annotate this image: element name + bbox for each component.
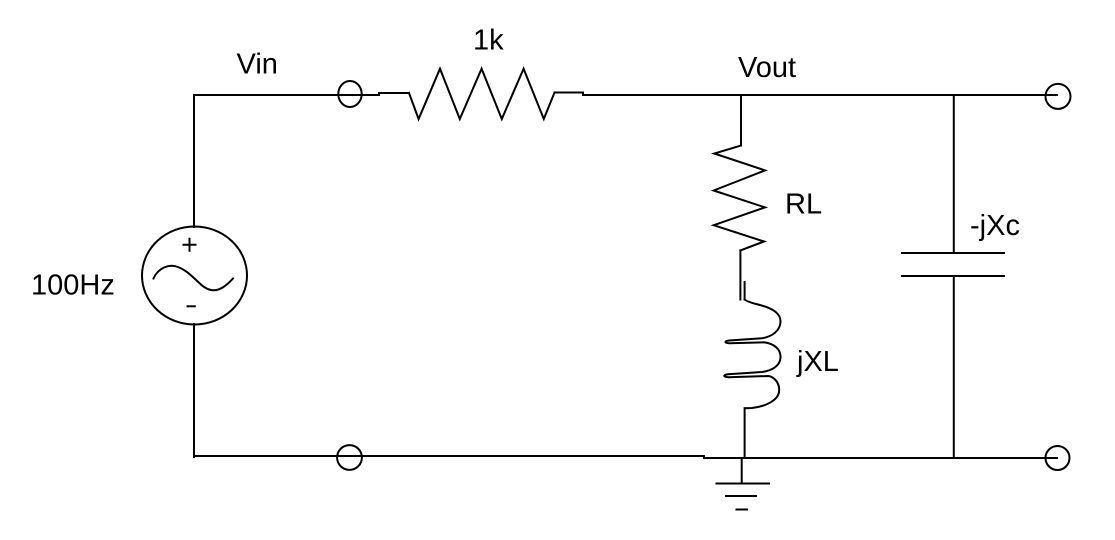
terminal bottom-left xyxy=(337,445,362,470)
svg-text:Vout: Vout xyxy=(738,52,796,84)
AC source minus sign xyxy=(188,305,195,307)
terminal top-left xyxy=(338,81,361,107)
terminal top-right xyxy=(1046,84,1071,109)
wire inductor top lead overlap xyxy=(744,282,746,300)
resistor R1 1k zigzag xyxy=(409,69,555,119)
svg-text:RL: RL xyxy=(785,188,822,220)
AC source sine wave xyxy=(154,266,234,290)
wire capacitor bottom lead xyxy=(953,276,955,458)
ground bar 3 xyxy=(737,509,748,511)
wire source bottom lead xyxy=(193,324,195,457)
ground stub xyxy=(741,458,743,484)
wire top-left from source to resistor xyxy=(194,93,409,95)
capacitor C1 top plate xyxy=(902,252,1004,254)
wire Vout node down lead xyxy=(740,95,742,146)
inductor L1 coil xyxy=(724,300,780,409)
AC source plus sign xyxy=(184,239,196,251)
svg-text:jXL: jXL xyxy=(796,346,839,378)
wire inductor bottom lead xyxy=(744,408,746,458)
wire top-right from resistor to output terminal xyxy=(555,93,1058,96)
svg-text:100Hz: 100Hz xyxy=(31,270,115,302)
ground bar 1 xyxy=(717,483,770,485)
svg-text:1k: 1k xyxy=(473,24,504,56)
capacitor C1 bottom plate xyxy=(902,275,1004,277)
wire bottom bus xyxy=(194,456,1057,458)
svg-text:Vin: Vin xyxy=(237,49,278,81)
AC source V1 circle xyxy=(142,227,247,325)
ground bar 2 xyxy=(726,495,756,497)
resistor RL zigzag xyxy=(714,146,765,251)
wire source top lead xyxy=(193,95,195,227)
wire RL bottom lead xyxy=(739,250,741,299)
terminal bottom-right xyxy=(1046,446,1070,470)
wire capacitor top lead xyxy=(953,95,955,253)
svg-text:-jXc: -jXc xyxy=(970,210,1020,242)
